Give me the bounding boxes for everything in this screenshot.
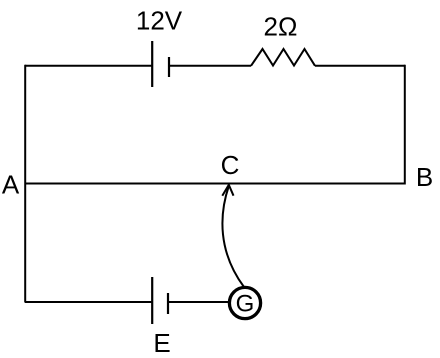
svg-text:A: A	[2, 170, 20, 200]
svg-text:E: E	[153, 328, 170, 358]
wire left vertical	[24, 65, 26, 303]
svg-text:G: G	[236, 291, 255, 318]
wire top-left horizontal	[25, 65, 152, 67]
wire resistor to top-right corner	[315, 65, 405, 67]
battery V1 long plate	[151, 41, 153, 87]
svg-text:2Ω: 2Ω	[264, 12, 298, 42]
battery E short plate	[167, 293, 169, 314]
battery V1 short plate	[168, 57, 170, 77]
wire bottom-left horizontal	[25, 301, 152, 303]
wire right vertical	[404, 65, 406, 185]
galvanometer G circle	[229, 287, 260, 318]
arrowhead at C	[222, 185, 233, 196]
wire battery to resistor	[169, 65, 251, 67]
svg-text:C: C	[221, 150, 240, 180]
wire battery to galvanometer	[168, 301, 229, 303]
svg-text:B: B	[416, 162, 433, 192]
wire A to B (middle)	[25, 183, 405, 185]
battery E long plate	[151, 277, 153, 324]
jockey curved wire from G to C	[222, 186, 244, 287]
svg-text:12V: 12V	[136, 6, 183, 36]
resistor R1 zigzag	[251, 49, 315, 66]
